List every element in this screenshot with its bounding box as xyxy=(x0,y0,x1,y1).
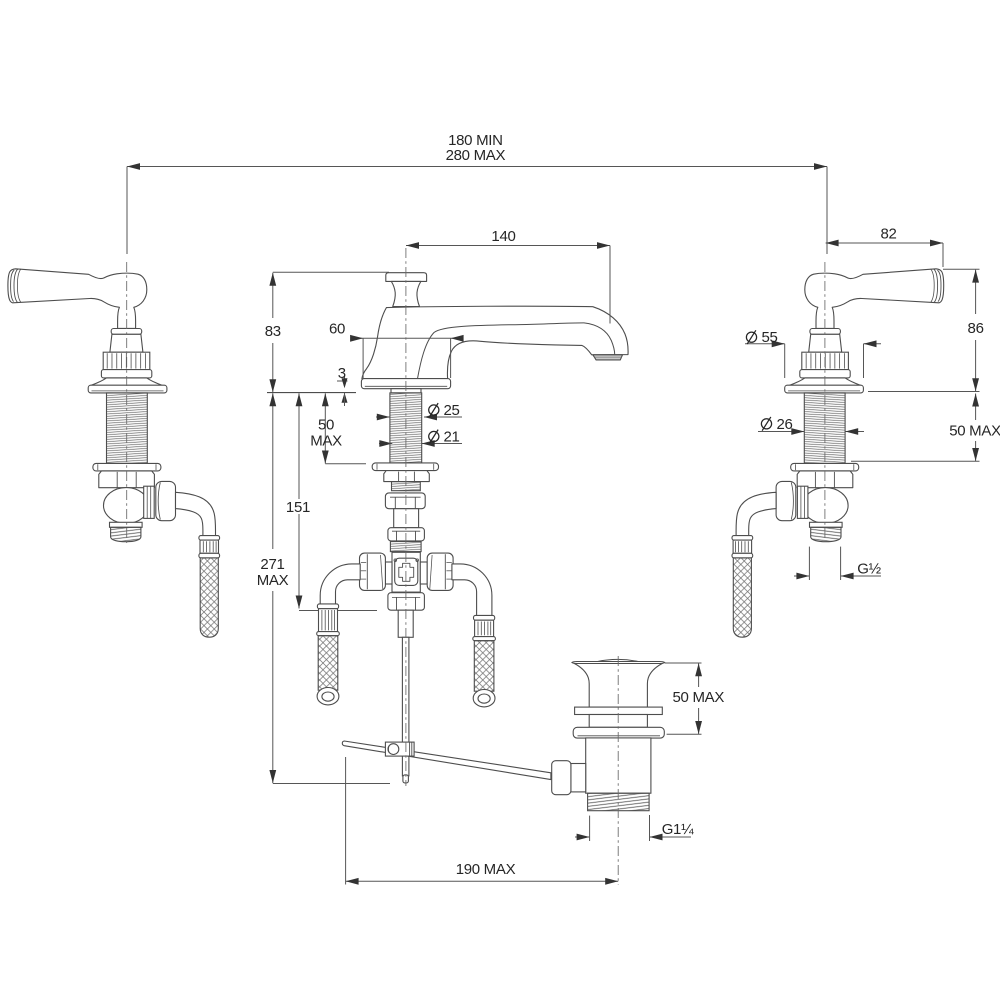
svg-text:MAX: MAX xyxy=(310,433,342,450)
handle backnut xyxy=(797,471,853,488)
svg-text:271: 271 xyxy=(260,556,284,573)
waste upper flange xyxy=(575,707,663,714)
svg-text:MAX: MAX xyxy=(257,572,289,589)
lever grip end face arcs xyxy=(937,270,941,301)
svg-text:21: 21 xyxy=(444,429,460,446)
flexible tail crimp collar xyxy=(732,536,753,541)
spout shank thread below backnut xyxy=(392,482,421,491)
flexible braided tail hose xyxy=(200,558,218,637)
handle bell rim xyxy=(88,385,167,393)
svg-text:60: 60 xyxy=(329,321,345,338)
spout back edge interior curve xyxy=(418,323,615,379)
left braided hose xyxy=(318,636,338,691)
lever grip end face arcs xyxy=(11,270,15,301)
dimension 82 handle length xyxy=(826,242,943,244)
dimension 3 base-to-deck gap xyxy=(337,380,348,382)
handle base ring xyxy=(101,370,151,378)
right hose elbow from tee xyxy=(452,564,492,616)
handle backnut xyxy=(99,471,155,488)
handle threaded shank dia 26 xyxy=(804,393,845,464)
central spout and tee assembly xyxy=(317,273,628,783)
right handle assembly (mirrored) xyxy=(732,269,944,637)
handle knurled ring xyxy=(103,352,150,369)
valve bottom inlet stub G half xyxy=(810,522,843,527)
handle knurled ring xyxy=(802,352,849,369)
svg-text:83: 83 xyxy=(265,323,281,340)
handle base ring xyxy=(800,370,850,378)
union nut lower / tee top nut xyxy=(388,528,425,541)
handle threaded shank dia 26 xyxy=(107,393,148,464)
waste lower flange xyxy=(573,727,664,738)
valve compression nut xyxy=(776,481,796,520)
svg-text:25: 25 xyxy=(444,402,460,419)
left hose elbow from tee xyxy=(320,564,360,605)
tee inlet thread xyxy=(390,542,421,552)
spout threaded shank dia 25 xyxy=(390,393,422,463)
svg-text:82: 82 xyxy=(880,225,896,242)
handle bell escutcheon xyxy=(91,378,162,386)
valve compression nut xyxy=(156,481,176,520)
spout centreline xyxy=(405,248,407,786)
left handle centreline xyxy=(126,262,128,543)
tee left compression nut xyxy=(360,553,386,590)
left hose open end xyxy=(317,688,339,705)
pop-up rod guide xyxy=(398,610,413,637)
flexible braided tail hose xyxy=(733,558,751,637)
dimension dia 55 handle bell xyxy=(745,343,785,345)
pop-up rod pivot block xyxy=(385,742,414,756)
flexible tail crimp collar xyxy=(199,536,220,541)
handle lever with ceramic grip xyxy=(805,269,944,329)
dimension dia 26 handle shank xyxy=(758,431,804,433)
handle valve body xyxy=(104,488,149,524)
dimension G 1-1/4 waste thread xyxy=(575,836,590,838)
dimension 271 MAX to rod tip xyxy=(272,393,274,549)
tee bottom nut xyxy=(388,593,425,611)
tee body xyxy=(392,552,420,592)
waste top rim xyxy=(572,662,665,664)
svg-text:151: 151 xyxy=(286,499,310,516)
pop-up waste assembly xyxy=(552,659,665,810)
spout backnut xyxy=(384,471,430,482)
valve outlet olive xyxy=(797,486,808,518)
handle bonnet xyxy=(110,334,143,352)
union nut upper xyxy=(385,493,425,509)
svg-text:140: 140 xyxy=(491,228,515,245)
dimension 83 spout height xyxy=(272,273,274,318)
dimension 151 to tee bottom xyxy=(298,393,300,499)
handle shank flange washer xyxy=(791,463,859,471)
svg-text:280 MAX: 280 MAX xyxy=(446,147,506,164)
spout shank flange washer xyxy=(372,463,438,471)
spout aerator outlet xyxy=(593,355,623,360)
dimension G half inlet thread xyxy=(794,575,809,577)
dimension 50 MAX deck thickness centre xyxy=(324,393,326,463)
pop-up rod xyxy=(402,637,409,776)
dimension 140 spout reach xyxy=(406,245,610,247)
handle shank flange washer xyxy=(93,463,161,471)
left handle assembly xyxy=(8,269,220,637)
handle stem washer xyxy=(111,329,142,335)
svg-text:50 MAX: 50 MAX xyxy=(949,423,1000,440)
connector tube xyxy=(394,509,419,528)
valve outlet olive xyxy=(144,486,155,518)
handle stem washer xyxy=(810,329,841,335)
deck surface line xyxy=(267,392,356,394)
waste body ring xyxy=(589,715,647,728)
dimension 50 MAX waste height xyxy=(698,663,700,687)
handle lever with ceramic grip xyxy=(8,269,147,329)
right hose crimp collar xyxy=(474,615,495,620)
svg-text:26: 26 xyxy=(777,416,793,433)
waste centreline xyxy=(617,656,619,885)
dimension 180 MIN / 280 MAX between handle centres xyxy=(127,166,827,168)
tee right compression nut xyxy=(427,553,453,590)
dimension 190 MAX waste offset xyxy=(346,880,619,882)
svg-text:G1¼: G1¼ xyxy=(662,821,694,838)
right braided hose xyxy=(474,641,494,692)
waste plug dome xyxy=(597,659,640,661)
svg-text:3: 3 xyxy=(338,365,346,382)
valve bottom inlet stub G half xyxy=(110,522,143,527)
dimension 50 MAX deck thickness right xyxy=(975,394,977,421)
svg-text:190 MAX: 190 MAX xyxy=(456,861,516,878)
spout pop-up knob xyxy=(386,273,427,282)
right hose open end xyxy=(473,690,495,707)
dimension dia 21 shank xyxy=(379,443,392,445)
spout base rim xyxy=(361,379,450,389)
spout shank neck xyxy=(391,389,421,393)
svg-text:55: 55 xyxy=(762,329,778,346)
handle valve body xyxy=(803,488,848,524)
handle bell rim xyxy=(785,385,864,393)
waste tail thread G 1-1/4 xyxy=(588,793,650,811)
waste body xyxy=(586,738,651,793)
valve elbow to flexible tail xyxy=(176,492,216,536)
dimension 86 handle height xyxy=(975,270,977,314)
spout body xyxy=(362,306,628,379)
waste side boss cap xyxy=(552,761,571,795)
svg-text:86: 86 xyxy=(968,320,984,337)
140 extension over spout nose xyxy=(609,308,611,324)
dimension dia 25 shank xyxy=(376,416,390,418)
handle bell escutcheon xyxy=(789,378,860,386)
right handle centreline xyxy=(824,262,826,541)
svg-text:G½: G½ xyxy=(857,561,881,578)
pivot thumb screw xyxy=(388,744,399,755)
svg-text:50 MAX: 50 MAX xyxy=(673,689,725,706)
waste side boss neck xyxy=(571,764,586,792)
dimension 60 spout base width line and arrows xyxy=(352,337,461,339)
pop-up lever rod xyxy=(342,741,551,780)
left hose crimp collar xyxy=(317,604,338,609)
pop-up waste flange funnel xyxy=(574,663,662,707)
handle bonnet xyxy=(809,334,842,352)
svg-text:50: 50 xyxy=(318,416,334,433)
valve elbow to flexible tail xyxy=(736,492,776,536)
